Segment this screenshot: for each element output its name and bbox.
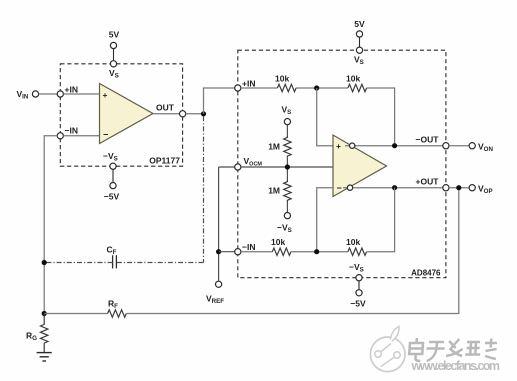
svg-text:−: − [337, 183, 342, 193]
+IN pin circle (OP1177) [57, 91, 63, 97]
wire -VS pin to -5V (AD8476) [358, 281, 360, 290]
capacitor CF plates [115, 255, 117, 268]
-OUT pin circle on box right edge [443, 143, 449, 149]
svg-text:5V: 5V [354, 19, 365, 29]
wire VREF vertical [218, 167, 220, 281]
wire -IN row to amp - input [317, 188, 333, 252]
wire -IN to R5 [241, 251, 272, 253]
wire +IN to R1 [241, 87, 278, 89]
watermark logo [370, 327, 405, 372]
svg-text:−5V: −5V [350, 299, 366, 309]
svg-text:RG: RG [26, 331, 37, 343]
-5V terminal circle (OP1177) [110, 183, 116, 189]
svg-text:−OUT: −OUT [416, 135, 440, 145]
svg-text:+IN: +IN [242, 79, 255, 89]
wire RF right lead to +OUT feedback [126, 190, 459, 314]
wire +OUT pin to VOP [449, 187, 469, 189]
resistor R3 1M [284, 136, 291, 158]
node RF junction [42, 311, 47, 316]
svg-text:10k: 10k [275, 74, 289, 84]
wire node to AD8476 -IN pin [219, 251, 235, 253]
svg-text:+IN: +IN [65, 85, 78, 95]
wire 5V to VS pin [113, 49, 115, 61]
wire CF horizontal right lead (dash-dot) [116, 262, 203, 264]
wire -OUT row [345, 145, 443, 147]
svg-text:OP1177: OP1177 [149, 156, 180, 166]
svg-text:1M: 1M [268, 142, 280, 152]
svg-text:−: − [103, 130, 108, 140]
svg-text:−IN: −IN [242, 242, 255, 252]
svg-text:www.elecfans.com: www.elecfans.com [411, 359, 501, 373]
output tap circle on bottom edge of amp [347, 185, 352, 190]
svg-text:10k: 10k [346, 74, 360, 84]
ground [37, 352, 52, 354]
svg-text:+OUT: +OUT [416, 177, 440, 187]
-5V terminal circle (AD8476) [356, 290, 362, 296]
svg-text:10k: 10k [271, 237, 285, 247]
svg-text:VS: VS [354, 55, 364, 67]
resistor R2 10k (feedback top) [348, 84, 367, 91]
-IN pin circle (OP1177) [57, 133, 63, 139]
wire R1 to node A [296, 87, 348, 89]
node B [314, 249, 319, 254]
OUT pin circle on box right edge [180, 111, 186, 117]
wire VS to R3 [286, 125, 288, 136]
node +OUT to RF feedback [456, 185, 461, 190]
wire VIN to +IN pin [39, 93, 58, 95]
VON terminal circle [469, 143, 475, 149]
wire R6 right and up to +OUT row [367, 188, 395, 252]
wire CF horizontal left lead (dash-dot) [44, 262, 112, 264]
wire R5 to node B [291, 251, 348, 253]
wire -VS pin to -5V [112, 169, 114, 182]
-VS pin circle on AD8476 bottom edge [356, 275, 362, 281]
wire CF vertical from OUT node (dash-dot) [203, 116, 205, 262]
svg-text:VOCM: VOCM [244, 156, 263, 168]
wire -IN pin left to feedback node [44, 136, 57, 314]
VS pin circle on box top edge [110, 61, 116, 67]
VS pin circle on AD8476 top edge [356, 47, 362, 53]
node -OUT feedback [392, 143, 397, 148]
node CF to feedback rail [42, 260, 47, 265]
svg-text:−VS: −VS [103, 151, 118, 163]
VIN input terminal [32, 91, 38, 97]
svg-text:−VS: −VS [277, 223, 292, 235]
resistor RF [108, 310, 127, 317]
wire op-amp output to OUT pin [153, 113, 180, 115]
svg-text:CF: CF [107, 245, 117, 257]
wire R2 right and down to -OUT row [367, 88, 395, 146]
wire R4 to -VS [286, 202, 288, 213]
svg-text:VOP: VOP [478, 184, 493, 196]
VREF terminal circle [216, 281, 222, 287]
node +OUT feedback to bottom 10k [392, 185, 397, 190]
5V terminal circle (AD8476) [356, 31, 362, 37]
resistor R6 10k (feedback bottom) [348, 248, 367, 255]
svg-text:+: + [336, 141, 341, 151]
OP1177 dashed box [60, 64, 182, 166]
watermark chinese text [409, 338, 499, 362]
VOP terminal circle [469, 185, 475, 191]
resistor R1 10k [277, 84, 296, 91]
+IN pin circle (AD8476) [235, 85, 241, 91]
amplifier U2 AD8476 triangle [333, 135, 387, 197]
wire +IN pin to op-amp [63, 93, 100, 95]
node VOCM divider [285, 164, 290, 169]
wire OUT node up and right to AD8476 +IN [204, 88, 236, 114]
VOCM pin circle on AD8476 left edge [235, 164, 241, 170]
node at OP1177 output [201, 111, 206, 116]
wire OUT pin to node [186, 113, 204, 115]
-IN pin circle (AD8476) [235, 249, 241, 255]
op-amp U1 OP1177 triangle [100, 84, 154, 144]
svg-text:AD8476: AD8476 [411, 269, 441, 278]
-VS pin circle on box bottom edge [110, 163, 116, 169]
node A [314, 85, 319, 90]
wire -OUT pin to VON [449, 145, 469, 147]
svg-text:−IN: −IN [65, 126, 78, 136]
svg-text:−VS: −VS [349, 262, 364, 274]
+OUT pin circle on box right edge [443, 185, 449, 191]
5V terminal circle (OP1177) [110, 42, 116, 48]
AD8476 dashed box [238, 50, 446, 278]
svg-text:VREF: VREF [206, 294, 224, 306]
svg-text:VON: VON [478, 142, 493, 154]
-VS mid terminal circle [284, 213, 290, 219]
wire +OUT row [343, 187, 443, 189]
svg-text:VIN: VIN [17, 89, 29, 101]
svg-text:10k: 10k [346, 237, 360, 247]
resistor R4 1M [284, 180, 291, 202]
svg-text:VS: VS [109, 68, 119, 80]
svg-text:1M: 1M [268, 186, 280, 196]
wire RF left lead [44, 313, 107, 315]
output tap circle on top edge of amp [350, 143, 355, 148]
wire VOCM row to amp [241, 166, 333, 168]
resistor R5 10k [272, 248, 291, 255]
svg-text:−5V: −5V [104, 192, 120, 202]
svg-text:+: + [103, 90, 108, 100]
wire R3 to VOCM row [286, 157, 288, 180]
node VREF to -IN [216, 249, 221, 254]
svg-text:5V: 5V [109, 30, 120, 40]
wire VOCM pin left [219, 166, 235, 168]
VS mid terminal circle [284, 119, 290, 125]
resistor RG [41, 314, 48, 353]
svg-text:OUT: OUT [156, 103, 175, 113]
wire node A down to amp + input [317, 88, 333, 146]
svg-text:VS: VS [282, 105, 292, 117]
wire -IN pin to op-amp [63, 135, 100, 137]
wire 5V to VS pin (AD8476) [359, 37, 361, 47]
svg-text:RF: RF [108, 299, 118, 311]
